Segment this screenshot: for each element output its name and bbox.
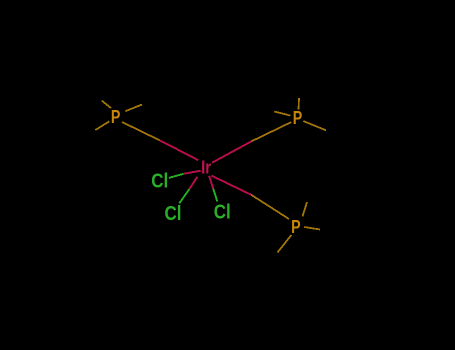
wire P3 methyl right (304, 227, 320, 230)
wire P2 methyl down-right (303, 121, 326, 130)
svg-text:Ir: Ir (201, 157, 211, 177)
wire Ir-Cl1 bond Ir half (183, 171, 201, 174)
wire Ir-Cl2 bond Ir half (189, 177, 197, 190)
wire Ir-P1 bond Ir half (160, 140, 199, 160)
wire P2 methyl up-left (274, 112, 290, 116)
svg-text:Cl: Cl (214, 202, 231, 224)
wire Ir-P2 bond P half (252, 122, 292, 141)
svg-text:Cl: Cl (165, 203, 182, 225)
wire Ir-Cl3 bond Cl half (213, 189, 217, 202)
wire P3 methyl down-left (278, 235, 292, 253)
wire Ir-P3 bond Ir half (211, 176, 251, 195)
wire Ir-Cl2 bond Cl half (179, 189, 189, 203)
svg-text:P: P (291, 217, 301, 237)
svg-text:Cl: Cl (151, 171, 168, 193)
wire Ir-Cl1 bond Cl half (169, 174, 183, 178)
wire P1 methyl up-right (125, 105, 142, 112)
wire Ir-P3 bond P half (251, 195, 289, 219)
wire P3 methyl up-right (303, 202, 308, 216)
svg-text:P: P (111, 107, 121, 127)
wire P1 methyl down-left (95, 121, 109, 130)
svg-text:P: P (293, 108, 303, 128)
wire P2 methyl up (298, 98, 301, 110)
wire Ir-Cl3 bond Ir half (209, 176, 213, 189)
wire P1 methyl up-left (102, 101, 111, 109)
wire Ir-P1 bond P half (122, 122, 160, 140)
wire Ir-P2 bond Ir half (212, 141, 251, 162)
